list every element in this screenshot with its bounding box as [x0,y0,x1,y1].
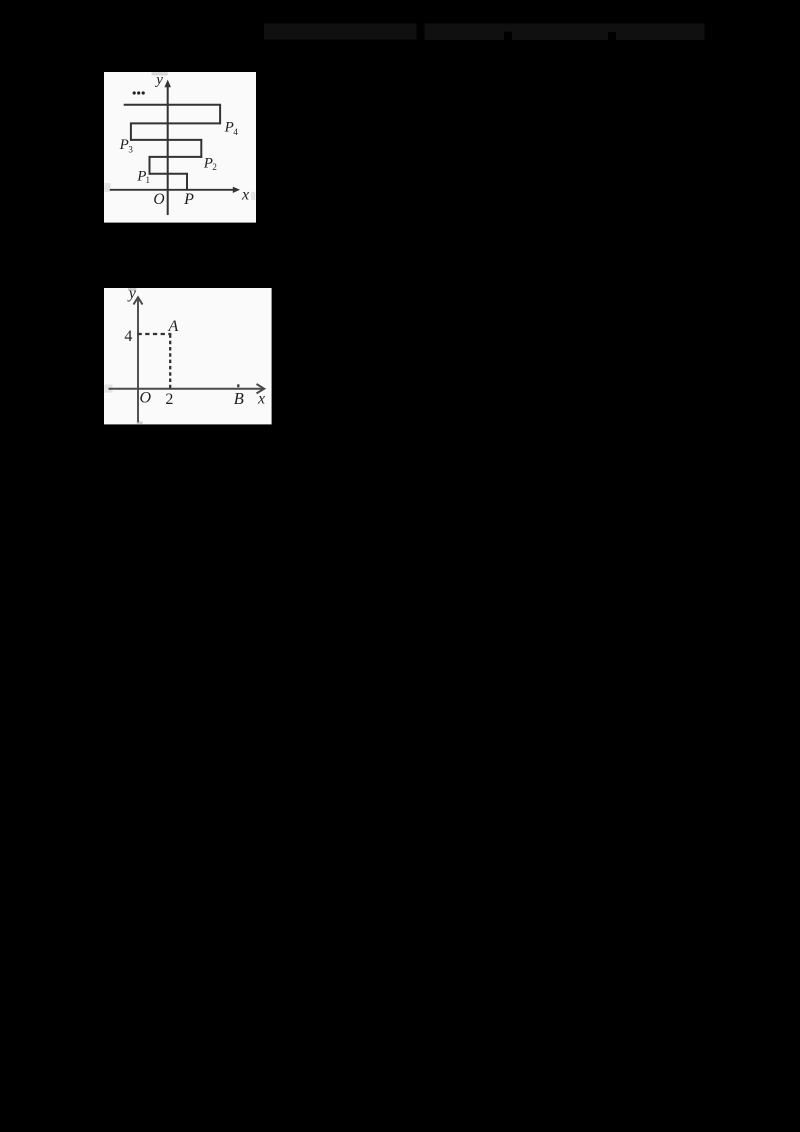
y-axis (panel 1) [167,84,169,215]
panel 2 smudge top [128,288,136,291]
panel 2 smudge left edge [104,385,112,393]
svg-text:4: 4 [233,127,238,137]
svg-text:x: x [241,187,249,204]
panel 2 smudge bottom [137,422,143,425]
svg-text:x: x [257,390,265,407]
staircase segment 9: vertical up from P4 [219,104,221,124]
x-axis arrowhead (panel 1) [233,187,240,193]
staircase segment 1: vertical up from P [186,173,188,190]
dashed horizontal line to A [138,333,172,335]
x-axis (panel 2) [109,388,263,390]
ellipsis dots [133,91,136,94]
svg-text:B: B [234,389,244,408]
svg-text:O: O [153,191,164,208]
staircase segment 3: vertical up from P1 [149,156,151,175]
svg-text:1: 1 [145,175,150,185]
staircase segment 10: top horizontal [124,104,221,106]
svg-text:P: P [224,120,234,136]
staircase segment 4: horizontal right to P2 [149,156,203,158]
y-axis arrowhead chevron (panel 2) [134,297,143,304]
svg-text:A: A [168,318,179,335]
svg-text:y: y [127,285,137,302]
y-axis (panel 2) [137,299,139,422]
panel 1 smudge left edge [104,183,110,192]
title comma gap 2 [608,32,616,41]
x-axis arrowhead chevron (panel 2) [257,384,265,393]
svg-text:y: y [154,72,163,88]
svg-text:2: 2 [165,391,173,408]
staircase segment 8: horizontal right to P4 [130,122,221,124]
x-axis (panel 1) [110,189,235,191]
dashed vertical line from A [169,334,171,388]
staircase segment 5: vertical up from P2 [200,139,202,158]
title comma gap 1 [504,32,512,41]
svg-text:3: 3 [128,144,133,154]
y-axis arrowhead (panel 1) [164,80,171,88]
svg-text:P: P [119,137,129,153]
title text block 2 [425,24,705,41]
panel 2 background [104,288,272,424]
svg-text:2: 2 [212,162,217,172]
staircase segment 6: horizontal left to P3 [130,139,202,141]
panel 1 smudge top [152,72,168,75]
panel 1 smudge right edge [251,192,256,200]
staircase segment 7: vertical up from P3 [130,123,132,141]
svg-text:4: 4 [124,328,132,345]
svg-text:P: P [183,191,194,208]
panel 1 background [104,72,256,223]
staircase segment 2: horizontal left to P1 [149,173,188,175]
svg-text:O: O [140,389,152,406]
point B tick [237,384,239,387]
title text block 1 [264,24,417,40]
